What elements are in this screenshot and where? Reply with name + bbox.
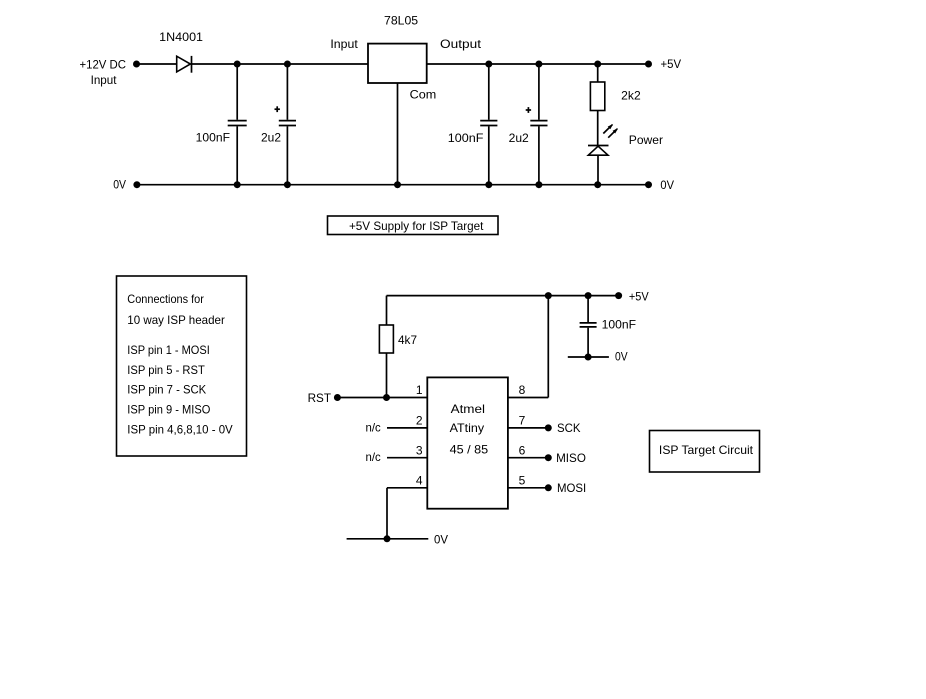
svg-text:7: 7 bbox=[519, 414, 526, 428]
svg-text:10 way ISP header: 10 way ISP header bbox=[127, 313, 225, 327]
svg-text:4k7: 4k7 bbox=[398, 333, 417, 347]
svg-text:ISP pin 4,6,8,10 - 0V: ISP pin 4,6,8,10 - 0V bbox=[127, 423, 232, 437]
svg-text:2u2: 2u2 bbox=[509, 131, 530, 145]
svg-text:n/c: n/c bbox=[366, 420, 381, 434]
svg-text:ATtiny: ATtiny bbox=[450, 421, 485, 435]
svg-text:n/c: n/c bbox=[366, 450, 381, 464]
svg-text:Input: Input bbox=[330, 37, 358, 51]
svg-text:3: 3 bbox=[416, 443, 423, 457]
svg-text:MOSI: MOSI bbox=[557, 481, 586, 495]
svg-text:+5V: +5V bbox=[629, 289, 649, 303]
svg-text:6: 6 bbox=[519, 443, 526, 457]
svg-text:1N4001: 1N4001 bbox=[159, 30, 203, 44]
svg-text:Com: Com bbox=[410, 88, 437, 102]
svg-text:0V: 0V bbox=[615, 350, 628, 364]
svg-text:+5V Supply for ISP Target: +5V Supply for ISP Target bbox=[349, 219, 484, 233]
svg-text:2: 2 bbox=[416, 414, 423, 428]
svg-text:100nF: 100nF bbox=[448, 131, 484, 145]
svg-text:100nF: 100nF bbox=[602, 318, 636, 332]
svg-text:Power: Power bbox=[629, 133, 663, 147]
svg-text:MISO: MISO bbox=[556, 451, 586, 465]
svg-text:+5V: +5V bbox=[661, 57, 682, 71]
svg-text:Atmel: Atmel bbox=[451, 402, 485, 416]
svg-text:SCK: SCK bbox=[557, 421, 581, 435]
svg-text:1: 1 bbox=[416, 383, 423, 397]
svg-text:ISP pin 5 - RST: ISP pin 5 - RST bbox=[127, 363, 205, 377]
svg-text:2k2: 2k2 bbox=[621, 89, 641, 103]
svg-text:5: 5 bbox=[519, 474, 526, 488]
svg-text:ISP pin 9 - MISO: ISP pin 9 - MISO bbox=[127, 402, 210, 416]
svg-text:2u2: 2u2 bbox=[261, 131, 281, 145]
svg-text:+12V DC: +12V DC bbox=[80, 57, 127, 71]
svg-text:Input: Input bbox=[91, 73, 118, 87]
svg-text:8: 8 bbox=[519, 383, 526, 397]
svg-text:4: 4 bbox=[416, 474, 423, 488]
svg-text:100nF: 100nF bbox=[196, 131, 230, 145]
svg-text:0V: 0V bbox=[434, 532, 448, 546]
svg-text:0V: 0V bbox=[660, 178, 674, 192]
svg-text:78L05: 78L05 bbox=[384, 14, 418, 28]
svg-text:ISP pin 1 - MOSI: ISP pin 1 - MOSI bbox=[127, 343, 210, 357]
svg-text:Output: Output bbox=[440, 37, 482, 51]
svg-text:ISP pin 7 - SCK: ISP pin 7 - SCK bbox=[127, 383, 206, 397]
svg-text:ISP Target Circuit: ISP Target Circuit bbox=[659, 443, 754, 457]
svg-text:RST: RST bbox=[308, 391, 332, 405]
svg-text:Connections for: Connections for bbox=[127, 292, 204, 306]
svg-text:0V: 0V bbox=[113, 178, 126, 192]
svg-text:45 / 85: 45 / 85 bbox=[450, 442, 489, 456]
